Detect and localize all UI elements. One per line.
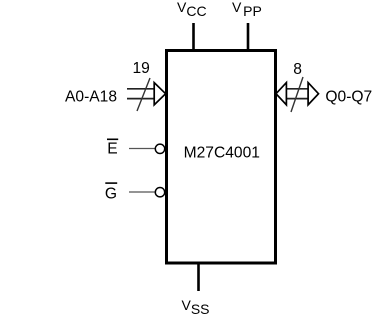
svg-text:VPP: VPP	[232, 0, 262, 19]
svg-text:M27C4001: M27C4001	[184, 144, 260, 161]
svg-text:19: 19	[133, 60, 150, 77]
svg-text:VCC: VCC	[177, 0, 207, 19]
svg-text:VSS: VSS	[182, 297, 210, 317]
svg-text:G: G	[105, 186, 117, 203]
svg-text:8: 8	[293, 61, 302, 78]
svg-text:E: E	[107, 141, 117, 158]
svg-text:A0-A18: A0-A18	[65, 89, 117, 106]
svg-text:Q0-Q7: Q0-Q7	[325, 88, 372, 105]
